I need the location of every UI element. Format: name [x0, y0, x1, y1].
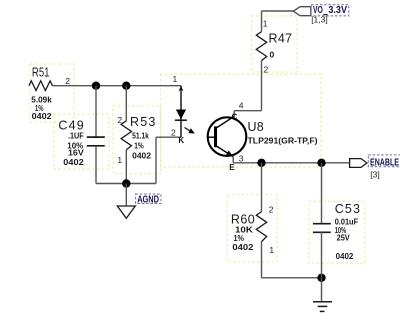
svg-text:TLP291(GR-TP,F): TLP291(GR-TP,F) [248, 135, 318, 145]
capacitor C53 [321, 163, 323, 224]
svg-text:1: 1 [117, 155, 122, 165]
power flag VO_3.3V [293, 7, 310, 16]
light arrow [185, 128, 191, 132]
svg-text:E: E [229, 163, 235, 172]
node junction AGND [122, 179, 130, 187]
capacitor C49 [95, 86, 97, 137]
svg-text:0402: 0402 [132, 151, 151, 161]
yellow change box R60 [227, 195, 277, 262]
wire: bottom-left rail [96, 183, 156, 185]
wire: emitter rail to ENABLE [233, 162, 349, 164]
svg-text:0402: 0402 [336, 251, 354, 261]
wire: emitter to rail [232, 157, 234, 163]
wire: R60 bottom rail [262, 277, 322, 279]
svg-text:1: 1 [269, 245, 274, 255]
yellow change box R53 [113, 106, 161, 174]
svg-text:2: 2 [264, 65, 269, 75]
svg-text:16V: 16V [68, 148, 84, 158]
svg-text:AGND: AGND [137, 194, 159, 205]
net flag ENABLE [350, 159, 367, 168]
svg-text:K: K [178, 136, 184, 145]
resistor R47 [256, 32, 266, 61]
svg-text:R53: R53 [130, 115, 155, 129]
wire: collector jog [234, 110, 261, 112]
node junction top R53 [122, 82, 130, 90]
yellow change box U8 [160, 74, 321, 167]
svg-text:[1,3]: [1,3] [311, 14, 328, 24]
svg-text:ENABLE: ENABLE [370, 157, 399, 168]
node junction top C49 [92, 82, 100, 90]
svg-text:2: 2 [171, 128, 176, 138]
svg-text:.1UF: .1UF [68, 131, 84, 141]
svg-text:2: 2 [269, 205, 274, 215]
svg-text:0402: 0402 [232, 242, 253, 252]
node junction R60 [257, 159, 265, 167]
svg-text:0: 0 [270, 49, 275, 59]
net label AGND [136, 194, 161, 204]
anode arrow marker [178, 86, 183, 91]
yellow change box R47 [252, 16, 297, 72]
svg-text:1: 1 [263, 19, 268, 29]
svg-text:1: 1 [173, 74, 178, 84]
node junction ground [317, 274, 325, 282]
wire: top rail R51 to LED [53, 85, 182, 87]
svg-text:C53: C53 [335, 202, 360, 216]
svg-text:[3]: [3] [370, 169, 379, 179]
resistor R53 [125, 86, 127, 121]
svg-text:1%: 1% [134, 141, 144, 151]
svg-text:U8: U8 [248, 120, 264, 134]
resistor R60 [261, 163, 263, 212]
svg-text:25V: 25V [337, 233, 350, 243]
svg-text:0402: 0402 [32, 111, 52, 121]
svg-text:51.1k: 51.1k [132, 131, 149, 141]
node junction C53 [317, 159, 325, 167]
wire: R47 top to VO flag [262, 10, 294, 12]
svg-text:3.3V: 3.3V [328, 5, 347, 16]
yellow change box C53 [309, 201, 365, 263]
opto transistor U8 [208, 117, 247, 156]
svg-text:R47: R47 [269, 32, 293, 46]
yellow change box C49 [54, 114, 109, 169]
wire: LED cathode down [155, 137, 157, 183]
svg-text:R51: R51 [32, 65, 50, 79]
svg-text:2: 2 [117, 115, 122, 125]
LED (U8 input diode) [180, 86, 182, 138]
ground earth symbol [321, 278, 323, 302]
resistor R51 [29, 81, 53, 91]
svg-text:0402: 0402 [63, 157, 84, 167]
svg-text:4: 4 [239, 101, 244, 111]
svg-text:2: 2 [65, 76, 70, 86]
wire: LED cathode horizontal [156, 136, 181, 138]
yellow change box R51 [30, 64, 74, 122]
ground AGND [125, 184, 127, 207]
svg-text:3: 3 [239, 154, 244, 164]
